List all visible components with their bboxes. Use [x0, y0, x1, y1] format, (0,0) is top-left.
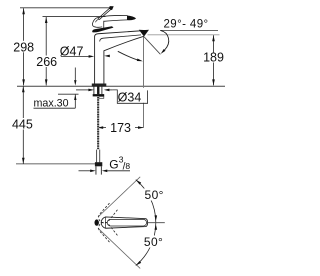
- svg-text:298: 298: [13, 40, 34, 54]
- svg-text:G: G: [109, 158, 118, 172]
- svg-text:Ø47: Ø47: [60, 45, 84, 59]
- svg-text:8: 8: [125, 161, 130, 171]
- svg-text:173: 173: [110, 121, 131, 135]
- svg-text:50°: 50°: [145, 188, 164, 202]
- svg-text:max.30: max.30: [34, 97, 69, 109]
- svg-text:445: 445: [12, 118, 33, 132]
- svg-text:266: 266: [36, 55, 57, 69]
- svg-text:Ø34: Ø34: [118, 91, 142, 105]
- svg-text:29°- 49°: 29°- 49°: [163, 19, 208, 31]
- svg-text:189: 189: [203, 51, 224, 65]
- svg-text:50°: 50°: [144, 235, 163, 249]
